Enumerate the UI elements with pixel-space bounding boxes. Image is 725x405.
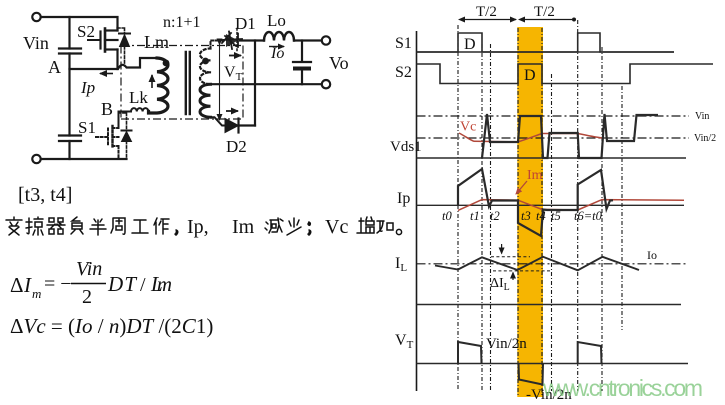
svg-text:Io: Io (647, 248, 657, 262)
T/2 dimension line first half (464, 19, 516, 21)
svg-text:B: B (101, 99, 113, 119)
diode D2 triangle (225, 119, 239, 133)
svg-text:t5: t5 (551, 209, 561, 223)
IL inductor current waveform (435, 257, 639, 271)
svg-text:IL: IL (395, 255, 407, 274)
svg-text:Vin: Vin (76, 258, 102, 280)
svg-text:t1: t1 (470, 209, 480, 223)
delta IL peak helper dashed line (491, 256, 530, 258)
svg-text:/: / (140, 274, 146, 296)
secondary polarity dot (202, 58, 209, 65)
svg-text:Ip: Ip (80, 78, 95, 97)
highlight band t3-t4 (517, 27, 543, 397)
time line t0 (457, 25, 459, 391)
svg-text:= −: = − (44, 273, 72, 295)
output terminal top (322, 36, 330, 44)
time line t3 (517, 28, 519, 397)
inductor Lo winding (264, 32, 294, 40)
svg-text:S2: S2 (395, 64, 412, 81)
S1 gate waveform (417, 33, 675, 52)
svg-text:t0: t0 (442, 209, 452, 223)
delta IL valley helper dashed line (493, 270, 550, 272)
svg-text:S2: S2 (77, 22, 95, 41)
transistor S2 gate bar (99, 32, 101, 49)
svg-text:VT: VT (224, 64, 243, 83)
wire top rail (41, 17, 118, 28)
input terminal bottom (32, 155, 40, 163)
time line t2 (490, 44, 492, 391)
svg-text:I: I (23, 273, 32, 297)
waveform vertical axis (416, 31, 418, 391)
transformer secondary winding lower (200, 84, 211, 117)
fullwidth comma (175, 230, 178, 235)
arrow Lk magnetizing current (151, 75, 153, 88)
svg-text:t3: t3 (521, 209, 531, 223)
voltage arrow VT double headed (219, 45, 221, 121)
svg-text:Ip,: Ip, (187, 216, 209, 238)
time line t4 (541, 28, 543, 397)
wire rectifier output vertical (254, 41, 256, 126)
char jia (377, 221, 393, 233)
output capacitor wire upper (301, 41, 303, 62)
diode D1 scribble strokes (221, 32, 242, 50)
svg-text:Im: Im (527, 168, 543, 183)
transistor S2 source stub (105, 48, 118, 50)
char jian (265, 218, 283, 233)
wire bottom rail (41, 158, 127, 160)
output capacitor wire lower (301, 71, 303, 85)
time line t6 (577, 20, 579, 391)
arrow secondary top current (229, 55, 241, 57)
char qi (47, 218, 65, 234)
output capacitor bottom plate (293, 67, 311, 71)
body diode of S1 dotted leads (119, 113, 127, 159)
middle unlabeled axis (417, 304, 682, 306)
wire left rail middle (68, 54, 70, 136)
time line t5 (551, 74, 553, 391)
delta IL up arrow (512, 273, 514, 281)
svg-text:D2: D2 (226, 137, 247, 156)
time line t1 next cycle (601, 47, 603, 391)
Ip waveform (458, 169, 613, 236)
char fu (71, 217, 83, 234)
svg-text:Vin/2: Vin/2 (694, 133, 716, 144)
Vds1 zero axis (417, 157, 687, 159)
svg-text:Vin/2n: Vin/2n (486, 336, 527, 352)
svg-text:t6=t0: t6=t0 (574, 209, 603, 223)
svg-text:Lo: Lo (267, 11, 286, 30)
body diode of S2 triangle (120, 35, 130, 47)
svg-text:Vc: Vc (325, 216, 348, 238)
output capacitor top plate (293, 61, 311, 63)
svg-text:m: m (32, 286, 41, 301)
char ban (90, 219, 106, 235)
svg-text:T/2: T/2 (534, 4, 555, 20)
Im pointer arrow (516, 181, 527, 194)
diode D2 cathode bar (237, 119, 239, 133)
transformer secondary winding upper dotted (200, 49, 211, 85)
dash-dot transformer model boundary box (121, 46, 243, 120)
body diode of S1 cathode bar (122, 130, 132, 132)
wire D2 to output node (239, 124, 256, 126)
transformer primary winding Lm (149, 58, 168, 113)
fullwidth period (396, 229, 401, 234)
transistor S2 drain stub (105, 29, 118, 31)
formula fraction bar (71, 283, 106, 285)
diode D1 scribbled body (226, 34, 238, 47)
svg-text:A: A (48, 57, 61, 77)
formula delta Im (10, 258, 172, 308)
S1 axis baseline (417, 51, 675, 53)
char bian (6, 217, 22, 235)
time line t1 (481, 44, 483, 391)
chinese caption: bian huan qi fu ban zhou gong zuo (6, 217, 402, 235)
diode D1 dotted wire from secondary (211, 41, 225, 49)
svg-text:Vin: Vin (695, 111, 709, 122)
T/2 dimension end dot (572, 18, 576, 22)
svg-text:Δ: Δ (10, 273, 24, 297)
transformer core bars (186, 52, 190, 114)
primary polarity dot (163, 60, 170, 67)
wire secondary center tap to output return (211, 83, 322, 85)
Im magnetizing current red (458, 200, 684, 211)
svg-text:2: 2 (82, 286, 92, 308)
Vds1 waveform (482, 114, 658, 158)
fullwidth semicolon (308, 222, 311, 235)
svg-text:www.cntronics.com: www.cntronics.com (542, 375, 703, 401)
svg-text:Io: Io (270, 45, 284, 62)
Io vector overline arrow (269, 46, 284, 48)
arrow secondary bottom current (226, 110, 238, 112)
wire secondary bottom to diode D2 (211, 117, 226, 125)
svg-text:DT: DT (107, 272, 137, 296)
svg-text:Lk: Lk (129, 88, 148, 107)
output terminal bottom (322, 80, 330, 88)
svg-text:[t3, t4]: [t3, t4] (18, 184, 72, 206)
svg-text:Vin: Vin (23, 33, 49, 53)
svg-text:VT: VT (395, 332, 414, 351)
time line t2 next cycle (621, 86, 623, 330)
transistor S2 gate lead (88, 39, 101, 41)
svg-text:n:1+1: n:1+1 (163, 14, 200, 31)
char zuo (154, 218, 169, 234)
svg-text:t2: t2 (490, 209, 500, 223)
wire node A to transformer primary (70, 58, 158, 69)
svg-text:D: D (524, 67, 536, 84)
capacitor C1 lower (59, 136, 81, 142)
char shao (287, 218, 301, 235)
body diode of S2 dashed leads (118, 28, 125, 66)
svg-text:Im: Im (232, 216, 255, 238)
wire left rail upper (68, 17, 70, 49)
char zeng (357, 217, 374, 233)
wire Lo to output terminal (294, 39, 322, 41)
body diode of S2 cathode bar (119, 33, 130, 35)
Ip zero axis (417, 204, 685, 206)
svg-text:ΔIL: ΔIL (490, 276, 510, 293)
svg-text:D1: D1 (235, 14, 256, 33)
transistor S2 middle stub (105, 39, 118, 41)
svg-text:Vc: Vc (460, 120, 476, 135)
IL center dash-dot line (417, 263, 689, 265)
diode D1 dotted vertical line (236, 29, 238, 53)
char zhou (111, 218, 125, 234)
svg-text:T/2: T/2 (476, 4, 497, 20)
VT waveform (458, 342, 602, 385)
input terminal top (32, 13, 40, 21)
transistor S2 channel bar (104, 29, 107, 52)
char huan (26, 217, 43, 235)
svg-text:S1: S1 (395, 35, 412, 52)
delta IL down arrow (501, 244, 503, 254)
svg-text:Lm: Lm (150, 272, 172, 296)
svg-text:Vo: Vo (329, 53, 349, 73)
inductor Lk winding (119, 108, 149, 111)
body diode of S1 triangle (122, 132, 132, 142)
wire left rail bottom (68, 141, 70, 159)
svg-text:Lm: Lm (144, 32, 169, 52)
T/2 dimension line second half (524, 19, 572, 21)
Vin reference dash-dot line (417, 115, 690, 117)
svg-text:D: D (464, 36, 476, 53)
arrow Ip current direction (100, 73, 113, 75)
svg-text:Ip: Ip (397, 190, 410, 207)
Vc curve red (459, 133, 602, 142)
svg-text:S1: S1 (78, 118, 96, 137)
node B wire (118, 112, 120, 125)
svg-text:Vds1: Vds1 (390, 139, 422, 155)
transistor S1 dotted symbol (96, 124, 119, 159)
S2 gate waveform (417, 64, 714, 84)
VT zero axis (417, 363, 689, 365)
transistor S2 source wire (116, 50, 118, 70)
svg-text:ΔVc = (Io / n)DT /(2C1): ΔVc = (Io / n)DT /(2C1) (10, 314, 213, 338)
transistor S2 drain wire (116, 28, 118, 31)
Vin/2 reference dash-dot line (417, 137, 690, 139)
char gong (132, 220, 148, 233)
capacitor C1 upper (59, 49, 81, 54)
svg-text:t4: t4 (536, 209, 546, 223)
wire D1 to Lo (240, 39, 264, 41)
